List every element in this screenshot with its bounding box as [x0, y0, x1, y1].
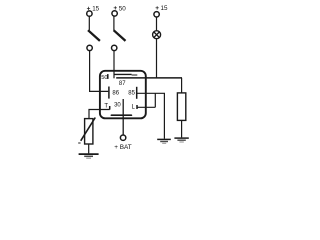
- wire S1 to pin 86: [90, 51, 109, 92]
- svg-text:85: 85: [128, 90, 135, 96]
- pin 50 bar: [107, 74, 109, 79]
- wire junction drop to pin L line: [154, 93, 156, 107]
- switch S2 lever: [114, 30, 126, 41]
- lamp terminal top: [154, 12, 159, 17]
- svg-text:T: T: [104, 103, 108, 109]
- svg-text:50: 50: [101, 75, 107, 81]
- thermistor R1: [85, 119, 93, 144]
- switch S1 terminal top: [87, 11, 92, 16]
- switch S2 terminal top: [112, 11, 117, 16]
- wire pin L to junction: [137, 106, 155, 108]
- resistor R2: [177, 93, 185, 121]
- internal line A: [114, 73, 132, 75]
- internal bottom bar: [111, 114, 131, 116]
- wire R2 to ground G2: [181, 120, 183, 137]
- svg-text:+ BAT: + BAT: [114, 144, 132, 151]
- wire: [88, 17, 90, 31]
- relay box U1: [100, 71, 146, 119]
- ground G3: [79, 153, 99, 155]
- pin 86 bar: [108, 87, 110, 99]
- svg-text:30: 30: [114, 103, 121, 109]
- battery terminal: [120, 135, 125, 140]
- svg-text:50: 50: [119, 5, 127, 12]
- wire R1 to ground G3: [88, 144, 90, 153]
- internal line 87 to resistor R2: [116, 77, 182, 79]
- minus label: [78, 142, 80, 144]
- wire lamp down to node 87: [156, 39, 158, 78]
- svg-text:86: 86: [112, 91, 119, 97]
- wire node 87 down to R2: [181, 78, 183, 93]
- ground G2: [174, 137, 188, 139]
- wire pin 85 to ground G1: [137, 93, 165, 138]
- svg-text:15: 15: [161, 5, 169, 12]
- wire: [156, 17, 158, 30]
- svg-text:87: 87: [119, 81, 126, 87]
- wire pin 30 to battery: [122, 99, 124, 135]
- svg-text:+: +: [87, 6, 91, 13]
- wire pin T to thermistor R1: [89, 110, 110, 119]
- pin T bar: [109, 106, 111, 110]
- wire S2 to pin 50: [113, 51, 115, 78]
- ground G1: [157, 138, 171, 140]
- wire: [113, 16, 115, 30]
- lamp E1: [153, 31, 161, 39]
- pin L bar: [136, 105, 138, 109]
- switch S2 terminal bottom: [112, 45, 117, 50]
- switch S1 terminal bottom: [87, 45, 92, 50]
- pin 85 bar: [136, 87, 138, 99]
- svg-text:+: +: [155, 5, 159, 12]
- switch S1 lever: [88, 30, 100, 41]
- svg-text:+: +: [113, 5, 117, 12]
- svg-text:15: 15: [92, 6, 99, 13]
